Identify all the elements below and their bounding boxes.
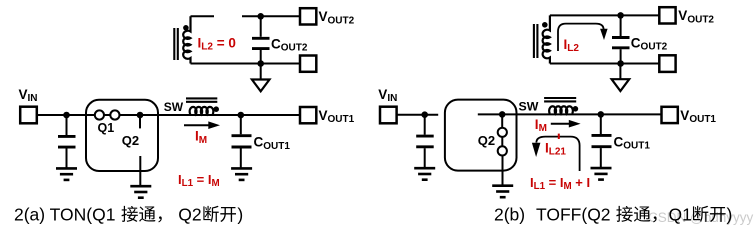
terminal VIN (right) xyxy=(380,107,397,124)
inductor L2 (left winding) xyxy=(183,16,190,63)
terminal VOUT1 (right) xyxy=(662,107,678,123)
capacitor COUT1 (left) xyxy=(232,115,252,168)
terminal VOUT2 (right) xyxy=(659,7,675,23)
svg-text:SW: SW xyxy=(164,100,184,114)
current loop arrow IL21 (right) xyxy=(532,137,580,171)
capacitor COUT1 (right) xyxy=(592,114,612,167)
node top (right subcircuit) xyxy=(617,12,624,19)
caption 2(b) hanzi 接 xyxy=(616,206,632,222)
polarity dot L2b xyxy=(542,22,548,28)
caption 2(a) hanzi 开 xyxy=(220,207,236,222)
transformer core (right, L2b) xyxy=(534,24,538,58)
capacitor COUT2 (right) xyxy=(612,15,630,63)
ground Q2 (left) xyxy=(130,186,151,198)
svg-text:): ) xyxy=(237,205,243,225)
ground COUT1 (left) xyxy=(231,168,252,180)
caption 2(b) hanzi 开 xyxy=(710,207,726,222)
terminal (lower square, right subcircuit) xyxy=(659,55,675,72)
wire SW rail (right, from inside block to VOUT1) xyxy=(478,113,662,115)
switch Q2 (closed) contact circles (right) xyxy=(498,114,507,155)
node bottom (right subcircuit) xyxy=(617,60,624,67)
svg-text:CSDN @bdhyyyy: CSDN @bdhyyyy xyxy=(648,210,753,225)
wire Q2 stub (open switch, left) xyxy=(139,115,141,128)
caption 2(b) fullwidth comma xyxy=(653,216,656,222)
capacitor COUT2 (left) xyxy=(252,16,270,63)
ground CIN (left) xyxy=(56,168,77,180)
node Q2 branch (right) xyxy=(499,111,506,118)
caption 2(a) fullwidth comma xyxy=(158,216,161,222)
svg-text:SW: SW xyxy=(519,99,539,113)
caption 2(a) hanzi 断 xyxy=(203,206,218,222)
node SW2a top xyxy=(257,13,264,20)
terminal (lower square, left top subcircuit) xyxy=(300,56,316,72)
svg-text:Q2: Q2 xyxy=(478,133,495,148)
wire bottom rail (right subcircuit) xyxy=(550,63,660,65)
svg-text:Q1: Q1 xyxy=(98,121,115,135)
node COUT1 (left) xyxy=(238,112,245,119)
capacitor CIN (right) xyxy=(416,115,434,168)
arrow IM (right) xyxy=(551,120,581,128)
svg-text:2(b): 2(b) xyxy=(494,205,525,225)
caption 2(a) hanzi 接 xyxy=(121,206,137,222)
terminal VIN (left) xyxy=(20,107,37,124)
ground (triangle, right subcircuit) xyxy=(612,64,630,92)
switch block (right) xyxy=(445,100,517,171)
polarity dot L1 (right) xyxy=(573,106,579,112)
inductor L1 (right) xyxy=(549,106,573,113)
ground COUT1 (right) xyxy=(591,168,612,180)
svg-text:TOFF(Q2: TOFF(Q2 xyxy=(536,205,611,225)
switch Q1 (closed) contact circles xyxy=(95,110,120,119)
svg-text:Q2: Q2 xyxy=(122,133,139,148)
current loop arrow IL2 (right) xyxy=(558,24,608,51)
ground (triangle, left top subcircuit) xyxy=(252,64,270,92)
transformer core (right, L1) xyxy=(544,98,576,101)
terminal VOUT1 (left) xyxy=(300,107,316,123)
caption 2(a) hanzi 通 xyxy=(139,206,155,221)
wire bottom rail of top subcircuit (left) xyxy=(191,63,301,65)
wire from L2 top (open end, gap) xyxy=(191,15,215,17)
svg-text:Q1: Q1 xyxy=(669,205,692,225)
svg-text:2(a) TON(Q1: 2(a) TON(Q1 xyxy=(14,205,115,225)
transformer core (left, L1) xyxy=(186,98,217,101)
inductor L2 (right winding) xyxy=(543,15,550,63)
wire to VOUT2 node xyxy=(242,15,301,17)
inductor L1 (left) xyxy=(190,107,214,114)
node VIN/cap junction (left) xyxy=(63,112,70,119)
terminal VOUT2 (left) xyxy=(300,8,316,24)
wire VIN to block (open at Q1, right) xyxy=(397,114,439,116)
node bottom (left top subcircuit) xyxy=(257,60,264,67)
ground CIN (right) xyxy=(414,168,435,180)
wire Q2 lower segment (left) xyxy=(139,156,141,186)
wire Q2 to ground (right) xyxy=(502,156,504,186)
polarity dot L2a xyxy=(183,25,189,31)
ground Q2 (right) xyxy=(492,186,513,198)
transformer core (left, L2a) xyxy=(174,28,178,60)
capacitor CIN (left) xyxy=(58,115,76,168)
svg-text:Q2: Q2 xyxy=(178,205,201,225)
polarity dot L1 (left) xyxy=(213,106,219,112)
caption 2(b) hanzi 通 xyxy=(634,206,650,221)
wire main rail (left) xyxy=(37,114,301,116)
node SW branch (left) xyxy=(137,112,144,119)
red tick on IL21 loop xyxy=(558,134,560,139)
arrow IM (left) xyxy=(184,121,220,129)
node VIN/cap junction (right) xyxy=(421,111,428,118)
caption 2(b) hanzi 断 xyxy=(693,206,708,222)
node COUT1 (right) xyxy=(598,111,605,118)
wire L2 top to VOUT2 node (right) xyxy=(550,14,660,16)
switch block (left) xyxy=(86,100,158,171)
svg-text:): ) xyxy=(727,205,733,225)
